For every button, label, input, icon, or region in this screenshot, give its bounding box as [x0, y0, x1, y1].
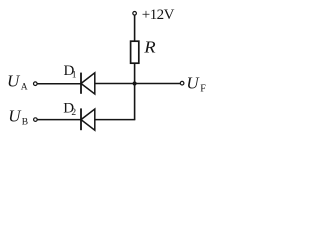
+12V supply terminal [133, 12, 137, 16]
resistor R [131, 41, 139, 63]
svg-text:1: 1 [72, 71, 77, 81]
svg-text:+12V: +12V [142, 7, 175, 23]
svg-text:A: A [21, 82, 28, 92]
wire: supply terminal to resistor top [134, 15, 136, 41]
svg-text:U: U [7, 71, 21, 90]
svg-text:2: 2 [71, 108, 76, 118]
svg-text:U: U [8, 107, 22, 126]
wire: D2 anode to corner under node [95, 119, 136, 121]
wire: UA terminal to D1 cathode [37, 83, 81, 85]
svg-text:B: B [22, 118, 28, 128]
input terminal UB [34, 118, 38, 122]
output terminal UF [180, 81, 184, 85]
node junction dot [133, 81, 137, 85]
svg-text:R: R [143, 38, 156, 57]
svg-text:F: F [200, 84, 206, 95]
svg-text:U: U [186, 73, 200, 92]
wire: UB terminal to D2 cathode [37, 119, 81, 121]
diode D1 [81, 73, 95, 94]
wire: D1 anode to node and output [95, 83, 180, 85]
diode D2 [81, 108, 95, 130]
wire: resistor bottom through node to corner [134, 63, 136, 119]
input terminal UA [34, 82, 38, 86]
